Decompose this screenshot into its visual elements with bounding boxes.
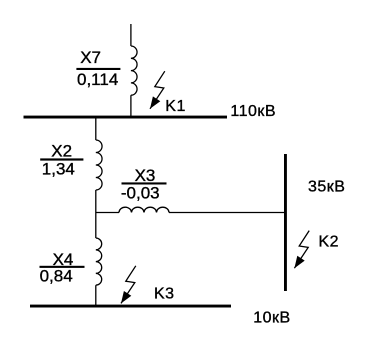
- reactor X4 coil: [96, 238, 102, 285]
- svg-text:0,84: 0,84: [40, 267, 73, 286]
- bolt K2: [294, 231, 309, 269]
- reactor X3 coil: [119, 207, 169, 212]
- bus 35kV: [284, 154, 287, 291]
- svg-text:10кВ: 10кВ: [253, 310, 290, 327]
- svg-text:110кВ: 110кВ: [230, 103, 276, 120]
- bus 110kV: [24, 116, 228, 119]
- wire below bus to X2: [95, 119, 97, 141]
- reactor X7 coil: [131, 46, 137, 95]
- wire top feeder above X7: [130, 24, 132, 46]
- bolt K1: [150, 71, 165, 109]
- bolt K3: [121, 266, 136, 304]
- wire node to X3: [96, 212, 119, 214]
- svg-text:35кВ: 35кВ: [308, 179, 345, 196]
- svg-text:K3: K3: [154, 286, 175, 303]
- svg-text:0,114: 0,114: [77, 70, 118, 89]
- svg-text:X3: X3: [135, 166, 156, 185]
- fraction bar X3: [122, 182, 167, 184]
- fraction bar X2: [40, 158, 83, 160]
- reactor X2 coil: [96, 140, 102, 190]
- fraction bar X7: [76, 68, 120, 70]
- svg-text:X2: X2: [51, 141, 72, 160]
- bus 10kV: [30, 305, 231, 308]
- wire X3 to 35kV bus: [169, 212, 285, 214]
- svg-text:K1: K1: [165, 98, 186, 115]
- svg-text:K2: K2: [319, 233, 340, 250]
- wire below X7 to 110kV bus: [130, 95, 132, 116]
- svg-text:1,34: 1,34: [42, 160, 75, 179]
- svg-text:-0,03: -0,03: [121, 184, 160, 203]
- wire below X2 to node: [95, 190, 97, 238]
- wire below X4 to 10kV bus: [95, 285, 97, 305]
- svg-text:X7: X7: [80, 48, 101, 67]
- fraction bar X4: [40, 266, 85, 268]
